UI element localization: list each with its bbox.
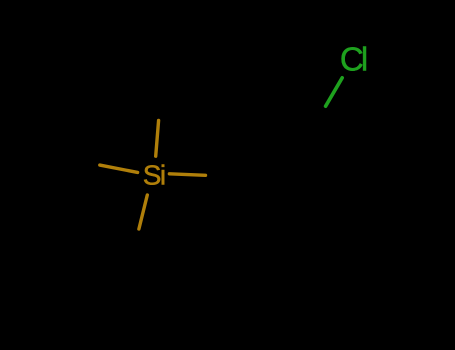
- bond Si-CH3 top (silicon half, olive): [156, 120, 159, 156]
- bond Si-CH3 left (silicon half, olive): [100, 165, 138, 172]
- benzene ring (carbon skeleton, drawn black on black as in source): [241, 134, 333, 214]
- wire: Cl-C3 bond carbon half (black, invisible): [309, 106, 326, 134]
- bond Si-CH3 lower-left (silicon half, olive): [139, 195, 147, 229]
- svg-text:Si: Si: [143, 160, 165, 191]
- bond Cl-C3 (chlorine half, green): [326, 78, 343, 106]
- wire: methyl carbon half-bonds (black, invisible): [62, 85, 162, 264]
- wire: C1-Si bond carbon half (black, invisible): [206, 175, 241, 177]
- bond Si-C1 ring (silicon half, olive): [169, 174, 205, 176]
- svg-text:Cl: Cl: [340, 41, 367, 78]
